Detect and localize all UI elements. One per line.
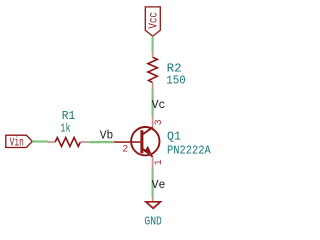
- transistor Q1 collector pin (pin 3): [142, 117, 153, 135]
- wire Vcc to R2: [152, 36, 154, 52]
- transistor Q1 base lead (pin 2): [114, 141, 142, 143]
- svg-text:1: 1: [154, 159, 165, 165]
- wire R2 to Q1 collector: [152, 89, 154, 117]
- svg-text:Vb: Vb: [100, 129, 114, 143]
- power flag Vin: [6, 135, 33, 149]
- transistor Q1 base bar: [140, 130, 143, 153]
- resistor R1: [48, 138, 89, 147]
- svg-text:2: 2: [122, 144, 128, 155]
- svg-text:GND: GND: [144, 215, 162, 229]
- svg-text:Ve: Ve: [152, 178, 166, 192]
- wire R1 to Q1 base: [89, 141, 114, 143]
- power flag Vcc: [145, 7, 160, 36]
- resistor R2: [148, 52, 157, 90]
- svg-text:Vcc: Vcc: [147, 12, 161, 29]
- svg-text:Q1: Q1: [167, 129, 181, 143]
- wire Vin to R1: [32, 140, 48, 142]
- svg-text:1k: 1k: [60, 121, 70, 135]
- ground GND: [146, 197, 161, 208]
- svg-text:Vc: Vc: [152, 98, 166, 112]
- svg-text:3: 3: [154, 119, 165, 125]
- wire Q1 emitter to GND: [152, 168, 154, 197]
- transistor Q1 emitter pin (pin 1) with arrow: [142, 147, 153, 168]
- svg-text:PN2222A: PN2222A: [167, 143, 211, 157]
- svg-text:150: 150: [166, 73, 186, 87]
- transistor Q1 body: [131, 127, 159, 155]
- svg-text:Vin: Vin: [10, 135, 24, 149]
